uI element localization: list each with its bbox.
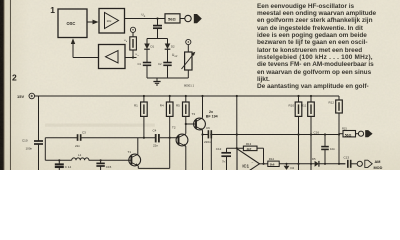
svg-text:2x: 2x xyxy=(209,110,213,114)
svg-text:C3: C3 xyxy=(82,130,86,134)
svg-text:80501 1: 80501 1 xyxy=(184,84,195,88)
svg-text:C2: C2 xyxy=(158,62,162,66)
svg-text:R1: R1 xyxy=(134,104,138,108)
svg-text:C15: C15 xyxy=(106,165,112,169)
svg-text:AM: AM xyxy=(375,160,381,164)
svg-text:C10: C10 xyxy=(22,138,28,142)
svg-text:56Ω: 56Ω xyxy=(168,17,176,22)
svg-text:10x: 10x xyxy=(107,19,112,23)
svg-text:C16: C16 xyxy=(314,130,320,134)
svg-text:T2: T2 xyxy=(172,126,176,130)
svg-text:10n: 10n xyxy=(330,147,335,151)
svg-text:1: 1 xyxy=(50,5,55,15)
svg-text:C4: C4 xyxy=(153,128,157,132)
svg-text:15V: 15V xyxy=(17,94,24,99)
svg-text:R13: R13 xyxy=(246,142,252,146)
svg-text:D5: D5 xyxy=(312,157,316,161)
svg-text:L1: L1 xyxy=(78,153,82,157)
svg-text:T1: T1 xyxy=(128,150,132,154)
svg-text:a: a xyxy=(138,55,140,57)
svg-text:R14: R14 xyxy=(269,157,275,161)
svg-text:o: o xyxy=(144,15,146,18)
svg-text:MOD: MOD xyxy=(374,166,383,170)
svg-text:ref: ref xyxy=(175,55,178,58)
svg-text:R10: R10 xyxy=(289,104,295,108)
svg-text:C13: C13 xyxy=(344,156,350,160)
svg-text:C1: C1 xyxy=(138,62,142,66)
svg-text:IC1: IC1 xyxy=(242,163,249,168)
svg-text:R12: R12 xyxy=(329,101,335,105)
svg-text:5k6: 5k6 xyxy=(270,163,275,167)
svg-text:D4: D4 xyxy=(291,166,295,170)
svg-text:−: − xyxy=(252,161,254,165)
svg-text:100n: 100n xyxy=(26,147,33,151)
svg-text:R5: R5 xyxy=(176,104,180,108)
svg-text:22n: 22n xyxy=(75,144,80,148)
svg-text:D1: D1 xyxy=(151,45,155,49)
svg-text:C6: C6 xyxy=(206,126,210,130)
svg-text:7n7: 7n7 xyxy=(222,159,227,163)
svg-text:R11: R11 xyxy=(301,104,307,108)
svg-text:b: b xyxy=(126,41,128,43)
svg-text:T3: T3 xyxy=(192,112,196,116)
svg-text:2: 2 xyxy=(12,73,17,83)
svg-text:C 14: C 14 xyxy=(65,165,72,169)
svg-text:OSC: OSC xyxy=(67,21,76,26)
svg-text:56Ω: 56Ω xyxy=(345,133,352,137)
svg-text:R4: R4 xyxy=(160,104,164,108)
svg-text:4k7: 4k7 xyxy=(247,147,252,151)
svg-text:220n: 220n xyxy=(204,140,211,144)
svg-text:BF 194: BF 194 xyxy=(206,115,218,119)
svg-text:22n: 22n xyxy=(153,144,158,148)
svg-text:C12: C12 xyxy=(216,147,222,151)
svg-text:R15: R15 xyxy=(342,126,347,130)
svg-text:D2: D2 xyxy=(171,45,175,49)
